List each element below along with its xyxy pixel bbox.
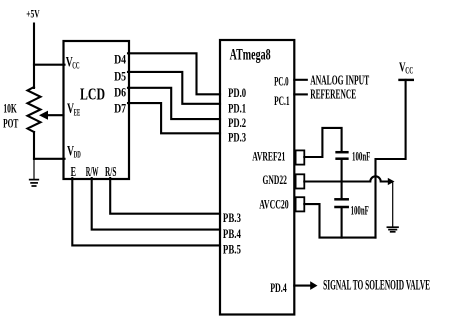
wire +5V to LCD Vcc [34,64,65,66]
svg-text:10K: 10K [3,100,17,115]
wire D5 to PD.1 [128,72,220,104]
arrowhead GND22 [388,178,395,185]
svg-text:PD.3: PD.3 [228,131,246,145]
svg-text:PB.3: PB.3 [223,211,241,225]
svg-text:R/W: R/W [86,164,99,179]
svg-text:PD.4: PD.4 [270,281,287,295]
svg-text:R/S: R/S [105,164,116,179]
wire E to PB.5 [72,178,220,245]
svg-text:PC.1: PC.1 [274,94,290,108]
svg-text:PD.1: PD.1 [228,101,246,115]
wire PC.1 stub [294,93,307,95]
svg-text:D7: D7 [114,102,126,116]
pin box AVCC20 [296,197,305,211]
label 100nF C2 [351,204,369,218]
wire D7 to PD.3 [128,103,220,133]
wire VDD [34,158,65,160]
wire Vcc vertical [376,80,406,238]
capacitor C2 100nF [336,199,348,207]
pin box AVREF21 [296,150,305,164]
svg-text:SIGNAL TO SOLENOID VALVE: SIGNAL TO SOLENOID VALVE [323,278,430,294]
svg-text:PD.0: PD.0 [228,86,246,100]
wire D6 to PD.2 [128,88,220,119]
svg-text:DD: DD [74,149,81,159]
LCD module [64,41,130,179]
wire AVCC20 loop [304,204,375,238]
label 100nF C1 [352,149,371,163]
+5V supply [26,9,40,21]
svg-text:PC.0: PC.0 [274,75,289,89]
wire GND22 with hop [304,176,388,181]
svg-text:AVCC20: AVCC20 [259,196,288,211]
wire AVREF21 to C1 [304,128,341,157]
Vcc supply symbol [399,60,413,75]
wiper arrow [47,114,64,116]
potentiometer 10K POT [28,87,41,132]
wire C1 bottom to GND22 net [341,160,343,182]
wire C2 top to GND22 net [341,182,343,199]
wire D4 to PD.0 [128,53,220,94]
svg-text:POT: POT [3,116,18,131]
label REFERENCE [310,87,356,102]
svg-text:100nF: 100nF [352,149,371,163]
svg-text:CC: CC [405,66,413,76]
wire PC.0 stub [294,79,307,81]
label SIGNAL TO SOLENOID VALVE [323,278,430,294]
svg-text:EE: EE [74,108,80,118]
svg-text:D4: D4 [114,53,127,67]
wire pot bottom [33,132,35,159]
svg-text:D6: D6 [114,86,126,100]
svg-text:AVREF21: AVREF21 [252,149,285,164]
capacitor C1 100nF [337,152,348,159]
ground 2 [387,227,398,232]
svg-text:LCD: LCD [80,85,105,104]
wire to ground 2 [392,182,394,227]
svg-text:REFERENCE: REFERENCE [310,87,356,102]
svg-text:E: E [71,164,76,179]
svg-text:CC: CC [72,60,79,70]
svg-text:ATmega8: ATmega8 [230,46,271,63]
svg-text:100nF: 100nF [351,204,369,218]
wire to ground 1 [33,159,35,179]
ground 1 [30,180,39,186]
wire C2 bottom [341,208,343,238]
svg-text:PB.4: PB.4 [223,227,242,241]
svg-text:GND22: GND22 [263,172,287,187]
label 10K POT [3,100,18,130]
arrowhead PD.4 [310,281,317,290]
label ANALOG INPUT [310,73,369,88]
svg-text:PB.5: PB.5 [223,243,241,257]
ATmega8 MCU [220,40,294,315]
wire R/W to PB.4 [92,178,220,230]
wire +5V vertical [33,24,35,89]
svg-text:PD.2: PD.2 [228,116,246,130]
svg-text:D5: D5 [114,70,126,84]
wire PD.4 signal [294,285,311,287]
pin box GND22 [296,174,305,188]
svg-text:ANALOG INPUT: ANALOG INPUT [310,73,369,88]
svg-text:+5V: +5V [26,9,40,21]
wire R/S to PB.3 [110,178,220,214]
